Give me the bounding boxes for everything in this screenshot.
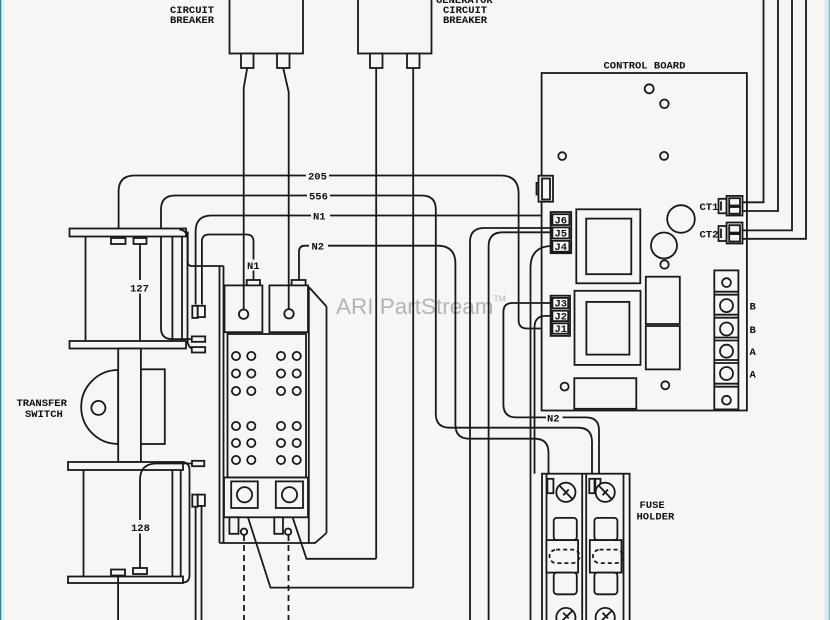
- wire J6 lower pin to bottom edge: [470, 228, 552, 620]
- fuse 2 middle section: [590, 540, 622, 573]
- svg-text:B: B: [750, 302, 757, 314]
- connector J2: [552, 311, 568, 324]
- svg-text:N2: N2: [312, 242, 325, 254]
- svg-text:SWITCH: SWITCH: [25, 409, 63, 421]
- board hole H1: [645, 84, 654, 93]
- label GENERATOR CIRCUIT BREAKER: [436, 0, 493, 27]
- terminal screw small top: [722, 278, 731, 287]
- svg-text:TM: TM: [494, 294, 506, 304]
- tab T2: [192, 347, 205, 352]
- svg-text:A: A: [750, 370, 757, 382]
- wire coil 127 terminal 2 down: [139, 244, 141, 341]
- svg-text:CT1: CT1: [700, 202, 719, 214]
- svg-text:BREAKER: BREAKER: [443, 15, 488, 27]
- terminal screw A1: [720, 345, 733, 358]
- connector J3: [552, 298, 568, 311]
- wire CT2 pin2 to top edge: [743, 0, 807, 239]
- board hole H2: [660, 100, 669, 109]
- terminal screw B1: [720, 299, 733, 312]
- contactor enclosure left wall: [188, 232, 224, 544]
- relay K1: [576, 209, 640, 283]
- wire CT1 pin1 to top edge: [743, 0, 764, 202]
- wire J4 to bottom edge: [531, 246, 553, 620]
- terminal screw A2: [720, 367, 733, 380]
- svg-text:N1: N1: [313, 212, 326, 224]
- connector J6: [552, 214, 569, 227]
- terminal screw B2: [720, 323, 733, 336]
- connector CT2: [719, 223, 743, 244]
- svg-text:J2: J2: [555, 312, 568, 324]
- wire CB2 left pin down to transfer-switch coil B circuit: [289, 68, 376, 559]
- svg-text:A: A: [750, 347, 757, 359]
- board hole H6: [561, 383, 569, 391]
- contactor terminal holes lower group: [232, 422, 301, 464]
- fuse 1 body lower: [554, 573, 577, 595]
- fuse 2 bottom screw: [596, 608, 615, 620]
- transfer switch coil 128: [68, 462, 190, 583]
- label CIRCUIT BREAKER: [170, 5, 215, 27]
- connector J5: [552, 227, 569, 240]
- wire coil 128 terminal 2 to tab 3: [140, 464, 192, 569]
- contactor enclosure bottom: [220, 533, 327, 543]
- transfer switch coil 127: [70, 229, 187, 349]
- wire 205: coil 127 terminal 1 to control board J1: [119, 176, 553, 329]
- svg-text:J6: J6: [555, 215, 568, 227]
- capacitor C2: [651, 233, 677, 259]
- svg-text:HOLDER: HOLDER: [637, 512, 676, 524]
- svg-text:556: 556: [309, 192, 328, 204]
- wire J2 to bottom edge: [535, 316, 553, 474]
- component rectangle lower: [646, 326, 680, 369]
- connector bracket J6-J4: [551, 212, 572, 253]
- svg-text:FUSE: FUSE: [640, 500, 665, 512]
- contactor main terminal body: [228, 334, 307, 478]
- fuse 2 body upper: [594, 518, 617, 540]
- circuit breaker CB1 (utility): [230, 0, 304, 68]
- wire CB1 right pin to contactor right box terminal: [283, 68, 289, 309]
- svg-text:BREAKER: BREAKER: [170, 15, 215, 27]
- board edge connector P3: [537, 176, 554, 202]
- contactor top terminal box right: [269, 280, 308, 332]
- wire 556 lower curve to tab 1: [161, 328, 192, 339]
- svg-text:CT2: CT2: [700, 230, 719, 242]
- label TRANSFER SWITCH: [17, 398, 68, 421]
- contactor coil section container: [224, 478, 308, 518]
- terminal screw small bottom: [722, 396, 731, 405]
- dashed wire from right tab to bottom edge: [288, 535, 290, 620]
- contactor coil box right: [276, 481, 303, 508]
- fuse 2 dashed link: [593, 550, 623, 564]
- svg-text:J3: J3: [555, 299, 568, 311]
- svg-text:N1: N1: [247, 261, 260, 273]
- wire CB1 left pin to contactor left box terminal: [244, 68, 248, 309]
- wire 556: transfer switch tab 1 to right fuse: [161, 196, 592, 478]
- contactor 3D side panel: [309, 287, 327, 543]
- contactor bottom tab left: [229, 517, 247, 535]
- connector J4: [552, 241, 569, 254]
- contactor terminal holes upper group: [232, 352, 301, 395]
- board hole H4: [660, 152, 668, 160]
- tab T1: [192, 336, 205, 341]
- component rectangle bottom: [574, 378, 636, 409]
- fuse holder FH1 outline: [542, 474, 630, 620]
- transfer switch actuator: [81, 349, 165, 463]
- fuse 2 top screw: [596, 483, 615, 502]
- connector CT1: [719, 196, 743, 216]
- watermark ARI PartStream: [336, 294, 506, 320]
- control board U1 outline: [542, 73, 747, 411]
- wire coil 128 terminal 1 down to bottom edge: [117, 576, 119, 620]
- wire pair connector P2 to bottom edge: [196, 507, 202, 620]
- fuse 1 top screw: [556, 483, 575, 502]
- contactor bottom tab right: [274, 517, 291, 535]
- label FUSE HOLDER: [637, 500, 676, 524]
- terminal strip TB1: [714, 270, 738, 409]
- component rectangle upper: [646, 277, 680, 324]
- wire N1: connector pin 1 to control board J6: [196, 216, 553, 305]
- capacitor C1: [667, 205, 695, 233]
- wire CT1 pin2 to top edge: [743, 0, 779, 211]
- connector bracket J3-J1: [551, 296, 570, 336]
- fuse 1 terminal: [547, 479, 553, 493]
- fuse 1 bottom screw: [556, 608, 575, 620]
- fuse 2 body lower: [594, 573, 617, 595]
- border right: [825, 0, 830, 620]
- contactor coil box left: [231, 481, 258, 508]
- connector P2 (2-pin): [192, 495, 205, 507]
- label N1 (tab): [246, 260, 261, 271]
- board hole H7: [661, 381, 669, 389]
- wire CB2 right pin down to transfer-switch coil A circuit: [244, 68, 413, 588]
- contactor top terminal box left: [225, 280, 263, 332]
- tab T3: [192, 461, 204, 466]
- fuse 1 dashed link: [550, 550, 580, 564]
- wire J3 to right fuse terminal (N2): [503, 303, 599, 478]
- wire N2: contactor right box tab to left fuse: [299, 246, 549, 478]
- svg-text:128: 128: [131, 523, 150, 535]
- generator circuit breaker CB2: [358, 0, 432, 68]
- wire J5 to bottom edge: [489, 232, 553, 620]
- svg-text:205: 205: [308, 172, 327, 184]
- fuse 1 body upper: [554, 518, 577, 540]
- fuse 2 terminal b: [595, 479, 600, 493]
- border left: [0, 0, 1, 620]
- board hole H3: [558, 152, 566, 160]
- connector P1 (2-pin): [192, 306, 205, 318]
- connector J1: [552, 323, 568, 336]
- wire coil 127 flange edge to tab 2: [180, 230, 198, 350]
- svg-text:CONTROL BOARD: CONTROL BOARD: [604, 61, 686, 73]
- wire N1 tab: connector pin 2 to contactor left box tab: [202, 235, 254, 305]
- fuse 1 middle section: [546, 540, 578, 573]
- board hole H5: [660, 260, 668, 268]
- relay K2: [575, 291, 641, 365]
- svg-text:B: B: [750, 325, 757, 337]
- svg-text:J5: J5: [555, 229, 568, 241]
- svg-text:J4: J4: [555, 242, 568, 254]
- svg-text:N2: N2: [547, 413, 560, 425]
- wire CT2 pin1 to top edge: [743, 0, 793, 230]
- dashed wire from left tab to bottom edge: [243, 535, 245, 620]
- svg-text:J1: J1: [555, 324, 568, 336]
- fuse 2 terminal a: [589, 479, 594, 493]
